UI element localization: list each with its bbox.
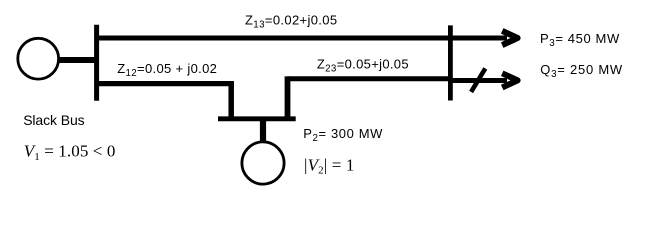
wire: generator G1 stub to bus 1 [56, 57, 96, 63]
generator G2 circle [242, 142, 284, 184]
bus 1 bar [94, 25, 99, 101]
wire: Q3 arrow shaft from bus 3 [448, 78, 507, 83]
arrowhead P3 [502, 31, 517, 45]
generator G1 (slack bus) circle [18, 38, 59, 79]
bus 2 bar [218, 116, 296, 121]
arrowhead Q3 [502, 73, 517, 87]
wire: line 1-3 (Z13) shaft from bus 1 to arrow P3 [95, 36, 508, 41]
wire: line 2-3 (Z23) from riser to bus 3 [288, 76, 453, 81]
bus 3 bar [448, 25, 453, 100]
wire: vertical drop from Z12 to bus 2 [228, 81, 234, 121]
wire: line 1-2 (Z12) from bus 1 to drop [95, 81, 234, 86]
svg-text:|V2| = 1: |V2| = 1 [304, 155, 355, 176]
wire: stub from bus 2 down to generator G2 [260, 119, 266, 143]
wire: riser from bus 2 to line 2-3 [285, 76, 291, 120]
svg-text:Slack Bus: Slack Bus [23, 112, 84, 128]
slash tick on Q3 arrow [471, 68, 485, 92]
